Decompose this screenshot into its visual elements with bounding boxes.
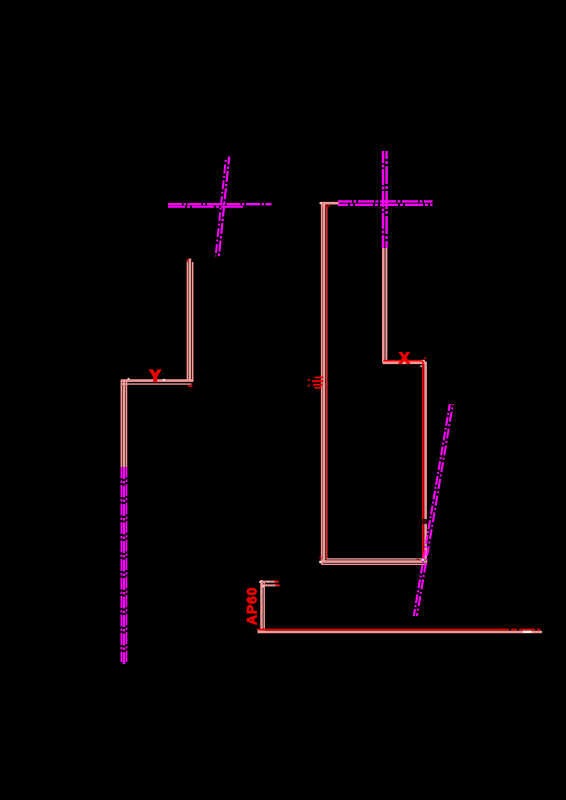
svg-text:AP60: AP60 [244,587,260,625]
svg-text:Y: Y [150,367,162,386]
white dots on left contour step [128,378,130,380]
white dots near step corner [422,360,424,362]
red dot at bottom-left corner of right contour [320,557,322,559]
white dot at bottom-right toolpath corner [422,559,424,561]
right contour: right edge (red toolpath + pink) [423,361,426,562]
centerline cross left: horizontal line [168,204,272,207]
right contour: step horizontal with red toolpath [383,361,427,363]
black break tick on right edge [421,519,428,524]
white speckles on tool holder [259,581,261,583]
right contour: left edge cluster (pink+pink+red toolpath) [322,202,327,565]
white dot at bottom-left contour corner [319,561,321,563]
tool holder: vertical line [262,580,265,633]
centerline cross right: vertical line [383,151,387,248]
left contour: lower vertical cluster (salmon part) [121,380,126,468]
left contour: upper vertical cluster [187,259,192,381]
centerline cross right: horizontal line [338,201,433,204]
white dot at bottom line left corner [258,630,260,632]
white dot at right contour top-left corner [320,202,322,204]
right contour: inner vertical below cross [383,248,386,362]
centerline: left long vertical dash-dot continuation [121,467,126,664]
red tick below left contour corner [188,385,193,387]
dark red dot left of bottom-right corner [417,559,419,561]
red dot above step corner [424,357,426,359]
right contour: bottom edge cluster [322,559,428,564]
right contour: top edge [321,203,339,206]
bottom toolpath: red line [257,629,543,631]
rotated-E red marker on right contour left edge [308,377,324,389]
bottom stock line: pink [258,631,543,634]
svg-text:X: X [399,351,410,368]
left contour: dark red tip [187,259,189,262]
tilted centerline (magenta dash-dot) [414,404,453,616]
white highlight segment on bottom line [523,631,532,633]
red tips on hook lines [275,581,280,583]
tiny yellow/green pixels at bottom-right corner [424,557,426,559]
centerline cross left: vertical (tilted) line [216,157,230,258]
left contour: step horizontal [121,381,194,385]
tool holder: top hook lines [261,582,279,586]
